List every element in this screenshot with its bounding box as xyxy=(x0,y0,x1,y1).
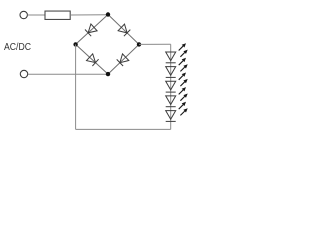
resistor R1 xyxy=(45,11,70,19)
node top (junction dot) xyxy=(106,12,110,16)
terminal T1 xyxy=(20,11,27,18)
LED D9 xyxy=(166,102,188,122)
diode D3 (bridge, left node to bottom node) xyxy=(76,44,108,74)
node left (junction dot) xyxy=(73,42,77,46)
LED D5 xyxy=(166,43,188,63)
svg-text:AC/DC: AC/DC xyxy=(4,42,31,53)
wire (LED column) xyxy=(170,44,172,129)
node bottom (junction dot) xyxy=(106,72,110,76)
wire (bottom rail) xyxy=(76,128,171,130)
diode D1 (bridge, top node to left node) xyxy=(76,15,108,45)
wire (right node to LED column) xyxy=(139,43,171,45)
diode D2 (bridge, top node to right node) xyxy=(108,15,139,45)
LED D7 xyxy=(166,73,188,93)
LED D8 xyxy=(166,87,188,107)
wire xyxy=(28,73,108,75)
LED D6 xyxy=(166,58,188,78)
wire xyxy=(70,14,108,16)
diode D4 (bridge, right node to bottom node) xyxy=(108,44,139,74)
wire xyxy=(28,14,45,16)
terminal T2 xyxy=(20,70,27,77)
node right (junction dot) xyxy=(137,42,141,46)
wire (left node down) xyxy=(75,44,77,129)
